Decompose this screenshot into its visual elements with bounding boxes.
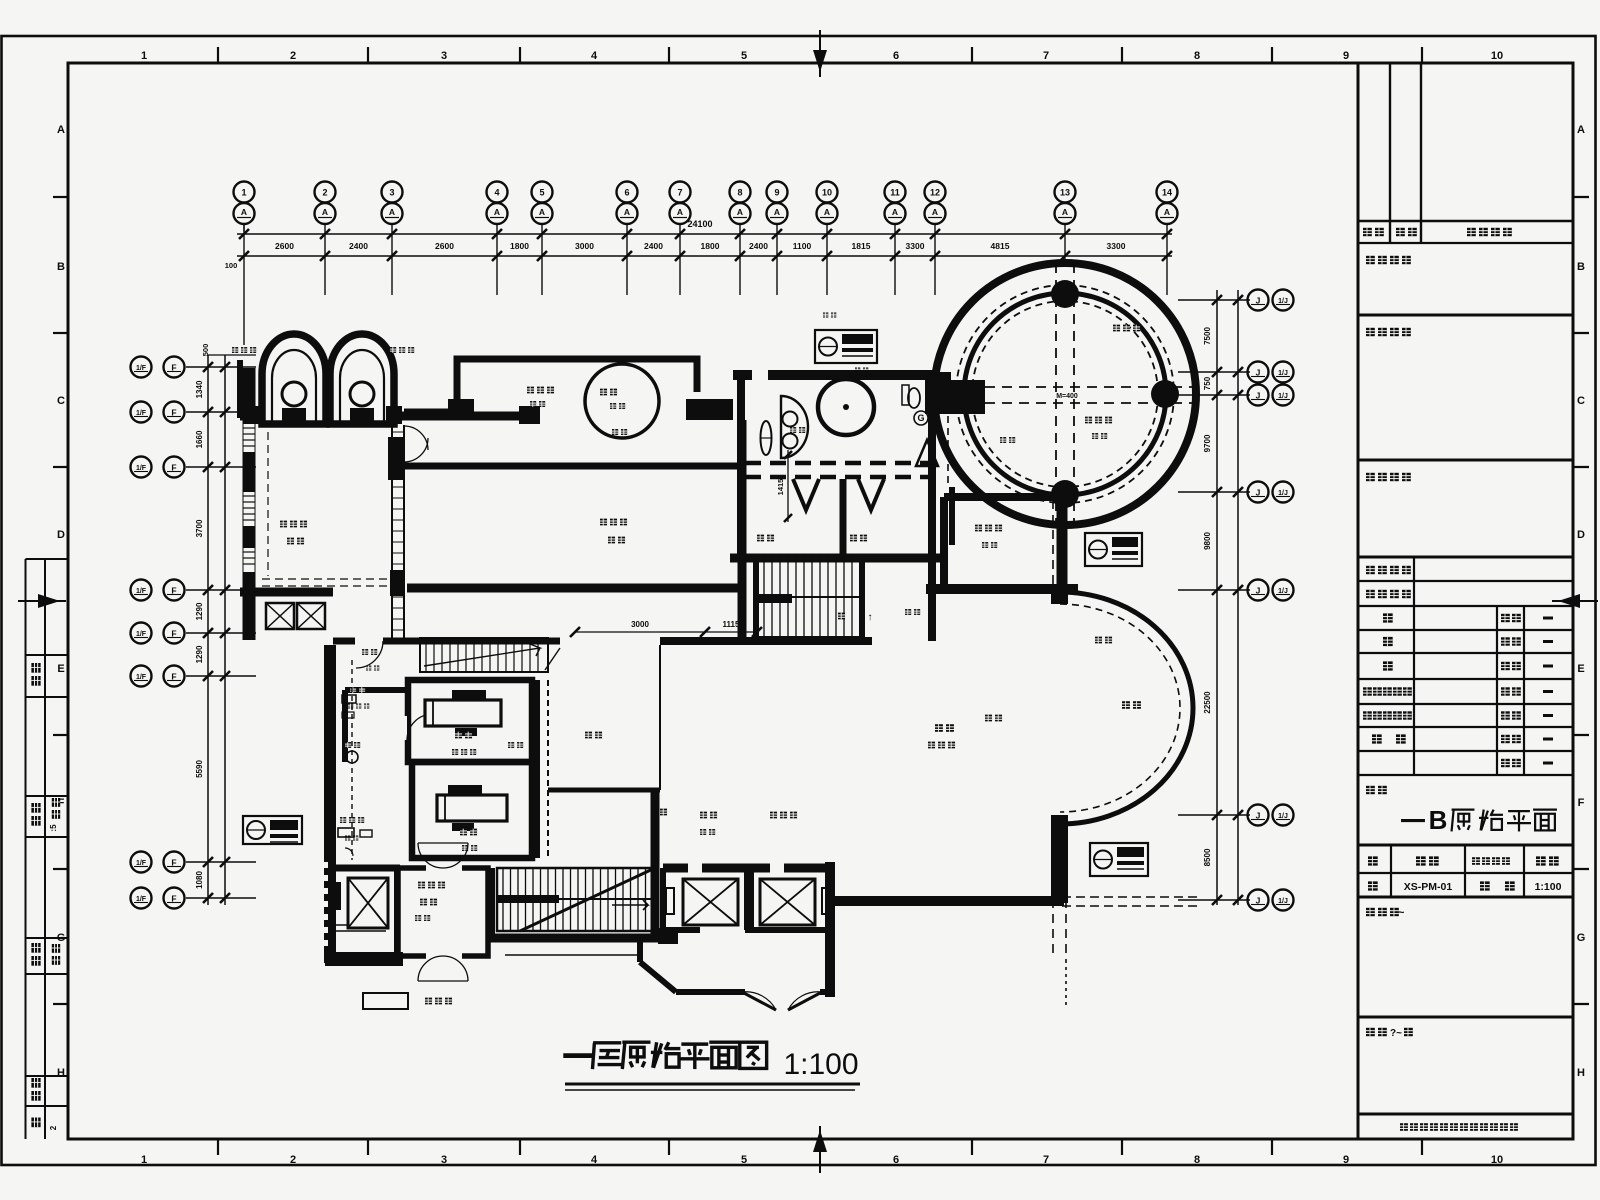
svg-text:1660: 1660 [195,430,204,448]
svg-text:3000: 3000 [631,620,649,629]
svg-text:C: C [57,395,65,407]
svg-text:10: 10 [822,188,832,198]
svg-text:3300: 3300 [1107,241,1126,251]
svg-text:XS-PM-01: XS-PM-01 [1404,881,1453,893]
svg-text:3300: 3300 [906,241,925,251]
svg-text:9700: 9700 [1203,434,1212,452]
svg-text:6: 6 [893,50,899,62]
svg-text:1100: 1100 [793,241,812,251]
svg-text:1415: 1415 [776,479,785,496]
svg-text:2600: 2600 [435,241,454,251]
svg-text:A: A [494,207,500,217]
svg-text:5590: 5590 [195,760,204,778]
svg-text:C: C [1577,395,1585,407]
svg-text:7: 7 [1043,1154,1049,1166]
svg-text:4: 4 [591,50,598,62]
svg-text:1800: 1800 [510,241,529,251]
svg-text:B: B [57,261,65,273]
svg-text:3700: 3700 [195,519,204,537]
svg-text:10: 10 [1491,1154,1503,1166]
svg-text:3: 3 [389,188,394,198]
svg-text:A: A [892,207,898,217]
svg-text:1:100: 1:100 [1535,881,1562,893]
svg-text:3: 3 [441,50,447,62]
svg-text:1340: 1340 [195,380,204,398]
svg-text::5: :5 [49,824,58,832]
svg-text:E: E [57,663,64,675]
svg-text:A: A [677,207,683,217]
svg-text:A: A [57,124,65,136]
svg-text:6: 6 [893,1154,899,1166]
svg-text:?~: ?~ [1390,1028,1402,1039]
svg-text:10: 10 [1491,50,1503,62]
svg-text:1080: 1080 [195,871,204,889]
svg-text:G: G [917,413,924,423]
svg-text:7: 7 [1043,50,1049,62]
svg-text:100: 100 [225,261,238,270]
svg-text:A: A [932,207,938,217]
svg-text:B: B [1429,805,1448,835]
svg-text:2: 2 [49,1125,58,1130]
svg-text:A: A [824,207,830,217]
svg-text:↑: ↑ [868,612,873,623]
svg-text:H: H [1577,1067,1585,1079]
svg-text:2: 2 [322,188,327,198]
svg-text:1290: 1290 [195,602,204,620]
svg-text:A: A [624,207,630,217]
svg-text:1115: 1115 [723,620,740,629]
svg-text:6: 6 [624,188,629,198]
svg-text:12: 12 [930,188,940,198]
svg-text:9: 9 [774,188,779,198]
svg-text:A: A [539,207,545,217]
svg-text:A: A [737,207,743,217]
svg-text:2: 2 [290,50,296,62]
svg-text:A: A [1062,207,1068,217]
svg-text:24100: 24100 [687,219,712,229]
svg-text:3: 3 [441,1154,447,1166]
svg-text:750: 750 [1203,376,1212,390]
svg-text:E: E [1577,663,1584,675]
svg-text:H: H [57,1067,65,1079]
svg-text:G: G [1577,932,1586,944]
svg-text:1: 1 [241,188,246,198]
svg-text:8: 8 [1194,1154,1200,1166]
svg-text:4815: 4815 [991,241,1010,251]
svg-text:14: 14 [1162,188,1172,198]
svg-text:1: 1 [141,1154,147,1166]
svg-text:A: A [1577,124,1585,136]
svg-text:D: D [1577,529,1585,541]
svg-text:1800: 1800 [701,241,720,251]
svg-text:4: 4 [591,1154,598,1166]
svg-text:22500: 22500 [1203,691,1212,714]
svg-text:2: 2 [290,1154,296,1166]
svg-text:13: 13 [1060,188,1070,198]
svg-text:9: 9 [1343,1154,1349,1166]
svg-text:F: F [1578,797,1585,809]
svg-text:9: 9 [1343,50,1349,62]
svg-text:4: 4 [494,188,499,198]
svg-text:2400: 2400 [749,241,768,251]
svg-text:7500: 7500 [1203,327,1212,345]
svg-text:8: 8 [1194,50,1200,62]
svg-text:1815: 1815 [852,241,871,251]
svg-text:A: A [774,207,780,217]
svg-text:8: 8 [737,188,742,198]
svg-text:M=400: M=400 [1056,393,1078,400]
svg-text:3000: 3000 [575,241,594,251]
svg-text:7: 7 [677,188,682,198]
svg-text:2400: 2400 [644,241,663,251]
svg-text:5: 5 [741,50,747,62]
svg-text:9800: 9800 [1203,532,1212,550]
svg-text:5: 5 [741,1154,747,1166]
svg-text:5: 5 [539,188,544,198]
svg-text:1:100: 1:100 [783,1048,858,1081]
svg-text:8500: 8500 [1203,848,1212,866]
svg-text:11: 11 [890,188,900,198]
svg-text:500: 500 [201,344,210,357]
svg-text:A: A [389,207,395,217]
svg-text:2600: 2600 [275,241,294,251]
svg-text:1290: 1290 [195,645,204,663]
svg-text:1: 1 [141,50,147,62]
svg-text:B: B [1577,261,1585,273]
svg-text:A: A [322,207,328,217]
svg-text:2400: 2400 [349,241,368,251]
svg-text:A: A [241,207,247,217]
svg-text:A: A [1164,207,1170,217]
svg-text:D: D [57,529,65,541]
svg-text:~: ~ [1398,907,1405,919]
